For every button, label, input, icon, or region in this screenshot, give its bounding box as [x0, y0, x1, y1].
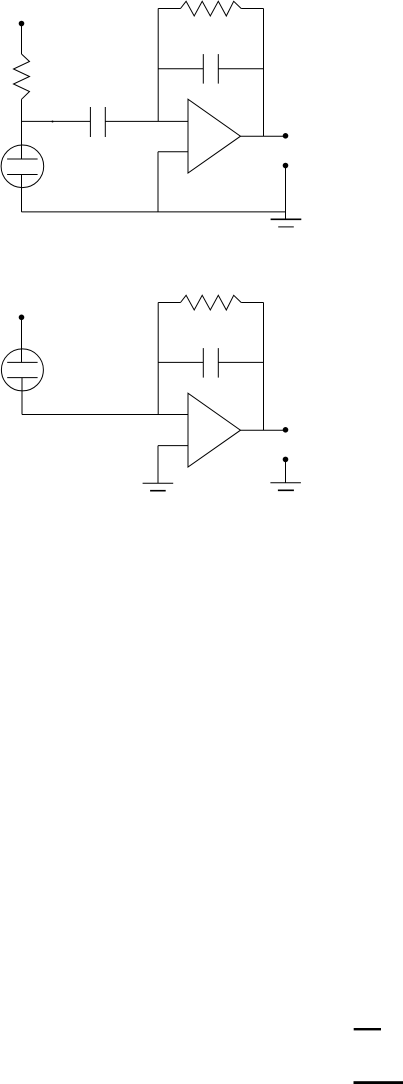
phototube PT1 envelope: [1, 145, 44, 188]
wire feedback right rail down to output (bottom circuit): [263, 303, 265, 431]
node output return terminal dot: [283, 163, 289, 169]
wire non-inverting leg down to bottom rail: [157, 152, 159, 212]
wire op-amp U1 output: [241, 135, 286, 137]
wire feedback capacitor row left segment: [158, 68, 203, 70]
resistor R2 (feedback resistor): [181, 1, 242, 16]
node VOUT1 terminal dot: [283, 133, 289, 139]
phototube PT2 envelope: [1, 349, 43, 391]
wire from resistor R1 to node A: [21, 99, 23, 121]
wire op-amp U2 output: [241, 429, 286, 431]
wire feedback left rail down to inverting input: [157, 9, 159, 122]
wire node A to capacitor C1: [21, 120, 90, 122]
capacitor C2 right plate: [217, 54, 219, 84]
wire non-inverting leg to ground (bottom circuit): [157, 446, 159, 484]
capacitor C3 (feedback capacitor, bottom circuit) left plate: [202, 348, 204, 378]
ground symbol (top circuit) bar 2: [278, 226, 294, 228]
wire feedback top rail right segment: [241, 8, 263, 10]
op-amp U1 triangle: [188, 99, 241, 173]
capacitor C1 (coupling capacitor) left plate: [89, 107, 91, 137]
node bias terminal dot (bottom circuit): [19, 315, 25, 321]
wire op-amp U2 non-inverting input: [158, 445, 188, 447]
wire feedback capacitor row right segment: [218, 68, 263, 70]
wire capacitor C1 to op-amp U1 inverting input: [105, 120, 188, 122]
ground symbol (non-inverting input) bar 2: [150, 490, 166, 492]
node VOUT2 terminal dot: [283, 427, 289, 433]
phototube PT1 anode plate: [7, 158, 37, 160]
resistor R3 (feedback resistor, bottom circuit): [181, 295, 242, 310]
phototube PT1 anode lead: [21, 145, 23, 159]
wire return terminal to ground: [285, 166, 287, 220]
phototube PT2 anode plate: [7, 361, 37, 363]
wire feedback top rail right segment (bottom circuit): [241, 302, 263, 304]
fraction bar 2: [354, 1081, 403, 1084]
wire op-amp U1 non-inverting input: [158, 151, 188, 153]
wire return terminal to ground (bottom circuit): [285, 459, 287, 482]
capacitor C1 right plate: [104, 107, 106, 137]
fraction bar 1: [354, 1028, 381, 1030]
ground symbol (top circuit) bar 1: [271, 218, 302, 220]
node VBIAS terminal dot: [19, 21, 25, 27]
wire feedback right rail down to output: [263, 9, 265, 137]
phototube PT1 cathode lead: [21, 175, 23, 212]
node output return terminal dot (bottom circuit): [283, 457, 289, 463]
wire feedback top rail left segment (bottom circuit): [158, 302, 180, 304]
phototube PT2 cathode plate: [7, 377, 37, 379]
phototube PT2 cathode lead: [21, 378, 23, 415]
node A junction (resistor / coupling cap / phototube): [21, 121, 23, 145]
wire feedback capacitor row right segment (bottom circuit): [218, 361, 263, 363]
phototube PT1 cathode plate: [7, 174, 37, 176]
wire feedback left rail (bottom circuit): [157, 303, 159, 415]
wire bottom rail: [22, 211, 286, 213]
ground symbol (output return, bottom circuit) bar 1: [270, 482, 301, 484]
capacitor C2 (feedback capacitor) left plate: [202, 54, 204, 84]
ground symbol (non-inverting input) bar 1: [143, 482, 174, 484]
wire feedback top rail left segment: [158, 8, 180, 10]
capacitor C3 right plate: [217, 348, 219, 378]
op-amp U2 triangle: [188, 393, 241, 467]
wire feedback capacitor row left segment (bottom circuit): [158, 361, 203, 363]
ground symbol (output return, bottom circuit) bar 2: [278, 489, 294, 491]
resistor R1 (vertical load resistor): [14, 54, 30, 99]
wire phototube PT2 to op-amp U2 inverting input: [22, 414, 188, 416]
wire from VBIAS dot to resistor R1: [21, 25, 23, 54]
wire terminal to phototube PT2: [21, 319, 23, 362]
junction dot on wire: [52, 121, 54, 123]
